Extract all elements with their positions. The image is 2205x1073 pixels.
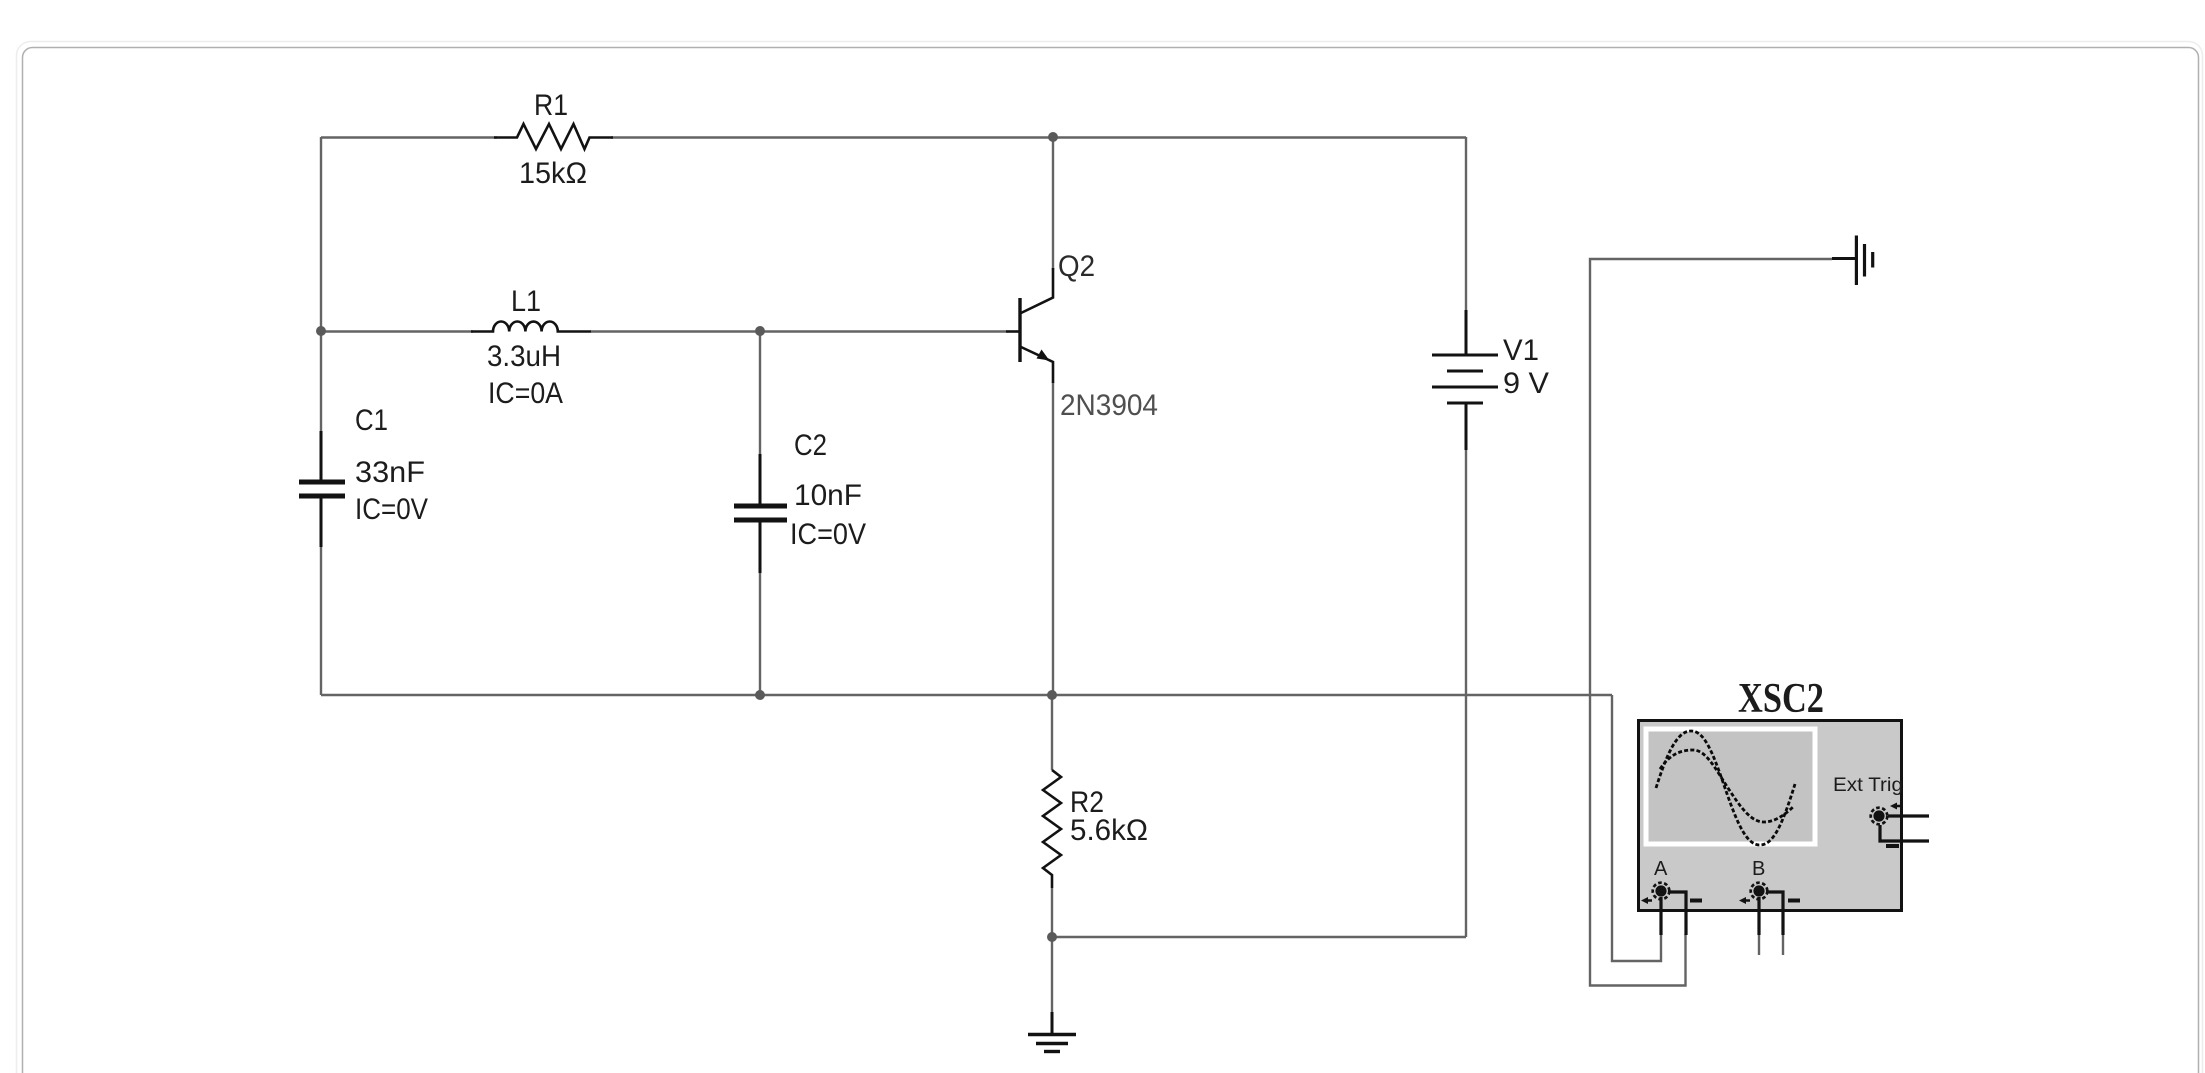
svg-text:IC=0V: IC=0V [790, 518, 866, 551]
svg-text:2N3904: 2N3904 [1060, 389, 1158, 422]
svg-text:R1: R1 [534, 89, 568, 122]
oscilloscope trace A (large sine) [1656, 731, 1795, 845]
svg-text:V1: V1 [1503, 334, 1539, 367]
node C2-bottom junction [755, 690, 765, 700]
svg-text:Ext Trig: Ext Trig [1833, 775, 1903, 796]
wire V1 top x=1466 [1465, 137, 1467, 310]
wire top rail y=137 [321, 136, 1466, 138]
wire R2 top x=1052 [1051, 695, 1053, 770]
wire scope B+ stub [1758, 934, 1760, 955]
svg-text:IC=0A: IC=0A [488, 377, 563, 410]
svg-text:XSC2: XSC2 [1738, 676, 1824, 722]
node emitter-R2 junction [1047, 690, 1057, 700]
oscilloscope channel A terminal [1641, 883, 1702, 904]
wire R2 bottom to y=937 rail [1051, 888, 1053, 937]
svg-text:Q2: Q2 [1058, 250, 1095, 283]
oscilloscope channel A pins [1661, 892, 1686, 935]
oscilloscope trace B (small sine) [1660, 750, 1794, 822]
node R2-V1 junction [1047, 932, 1057, 942]
wire collector vertical x=1053 [1052, 137, 1054, 270]
wire left vertical x=321 [320, 137, 322, 695]
oscilloscope Ext Trig pins [1880, 816, 1929, 841]
ground (top right, rotated) [1832, 236, 1873, 286]
wire emitter vertical x=1053 [1052, 382, 1054, 695]
node base-left junction [316, 326, 326, 336]
oscilloscope channel B pins [1759, 892, 1783, 935]
wire ground to scope A- route [1590, 259, 1832, 986]
oscilloscope screen [1646, 729, 1815, 844]
inductor L1 [471, 322, 591, 332]
oscilloscope XSC2 body [1639, 721, 1902, 911]
transistor Q2 [1006, 268, 1053, 383]
capacitor C1 [299, 431, 345, 547]
wire V1 bottom x=1466 [1465, 450, 1467, 937]
svg-text:C1: C1 [355, 404, 388, 437]
svg-text:5.6kΩ: 5.6kΩ [1070, 814, 1148, 847]
battery V1 [1432, 310, 1498, 450]
ground (bottom, under R2) [1028, 1012, 1076, 1052]
svg-text:9 V: 9 V [1503, 367, 1549, 400]
resistor R2 [1043, 770, 1061, 888]
svg-text:IC=0V: IC=0V [355, 493, 428, 526]
oscilloscope channel B terminal [1739, 883, 1800, 904]
svg-text:C2: C2 [794, 429, 827, 462]
wire bottom rail y=695 [321, 694, 1612, 696]
svg-text:10nF: 10nF [794, 479, 862, 512]
svg-text:L1: L1 [511, 285, 541, 318]
svg-text:15kΩ: 15kΩ [519, 157, 587, 190]
svg-text:3.3uH: 3.3uH [487, 340, 561, 373]
svg-text:33nF: 33nF [355, 456, 425, 489]
oscilloscope Ext Trig terminal [1871, 803, 1902, 847]
node collector-top junction [1048, 132, 1058, 142]
transistor Q2 emitter arrow [1037, 350, 1050, 361]
wire scope A+ route [1612, 695, 1661, 961]
svg-text:A: A [1654, 858, 1668, 880]
wire C2 vertical x=760 [759, 331, 761, 695]
svg-text:B: B [1752, 858, 1765, 880]
wire L1 row y=331 [321, 330, 1006, 332]
resistor R1 [494, 124, 613, 149]
wire scope B- stub [1782, 934, 1784, 955]
capacitor C2 [734, 454, 787, 573]
wire rail y=937 to V1 [1052, 936, 1466, 938]
wire R2 to ground [1051, 937, 1053, 1012]
node base-C2 junction [755, 326, 765, 336]
